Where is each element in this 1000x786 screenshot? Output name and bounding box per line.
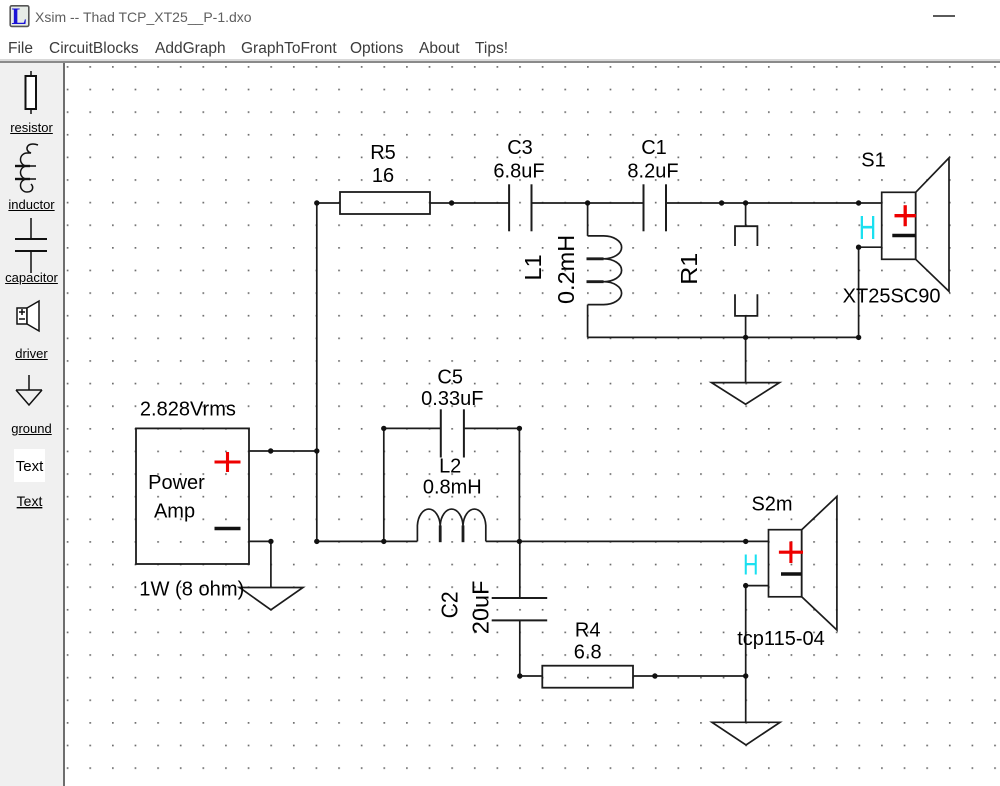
app icon (9, 5, 35, 31)
wire C3 to C1 (532, 202, 644, 204)
junction S1 plus terminal (856, 200, 861, 205)
capacitor C1 plates (644, 184, 667, 231)
wire vertical bus from top net to amp and woofer rail (316, 203, 318, 541)
resistor R1 body (735, 226, 757, 316)
S1 minus polarity mark (892, 234, 915, 237)
toolbar ground icon (16, 375, 42, 405)
wire S2m node to ground (745, 676, 747, 722)
driver S2m symbol (769, 497, 837, 631)
wire woofer rail left (317, 540, 418, 542)
junction C5 right top (517, 426, 522, 431)
S1 plus polarity mark (895, 205, 916, 226)
svg-text:R1: R1 (676, 253, 702, 285)
svg-text:8.2uF: 8.2uF (627, 161, 678, 183)
menu bar (8, 40, 33, 58)
junction amp plus at bus (314, 448, 319, 453)
junction C5 right bottom on rail at C2 (517, 539, 522, 544)
junction R4 right (652, 673, 657, 678)
svg-text:1W (8 ohm): 1W (8 ohm) (139, 579, 244, 601)
junction S2m minus terminal (743, 583, 748, 588)
junction tweeter rail at R1 (743, 335, 748, 340)
junction top net at amp bus (314, 200, 319, 205)
junction amp plus wire (268, 448, 273, 453)
wire R4 to S2m node (633, 675, 746, 677)
junction C2 bottom at R4 left (517, 673, 522, 678)
wire R1 top lead (745, 203, 747, 226)
svg-text:XT25SC90: XT25SC90 (843, 286, 941, 308)
junction tweeter rail at S1 return (856, 335, 861, 340)
wire R1 bottom lead (745, 316, 747, 338)
resistor R4 body (542, 666, 633, 688)
svg-text:6.8uF: 6.8uF (493, 161, 544, 183)
junction amp minus to ground (268, 539, 273, 544)
svg-text:R5: R5 (370, 142, 396, 164)
svg-text:20uF: 20uF (468, 581, 494, 635)
svg-text:H: H (859, 209, 877, 246)
wire L1 top lead (587, 203, 589, 236)
wire L1 bottom lead (587, 305, 589, 338)
wire C5 row right (464, 427, 520, 429)
wire R5 to C3 (430, 202, 509, 204)
S2m minus polarity mark (781, 572, 802, 575)
toolbar capacitor icon (15, 218, 47, 273)
capacitor C2 plates (492, 598, 548, 620)
junction top net at R1 (743, 200, 748, 205)
wire S2m lower terminal (746, 585, 769, 587)
ground below woofer S2m node (712, 722, 780, 745)
wire amp plus terminal (249, 450, 317, 452)
junction top net before R1 (719, 200, 724, 205)
svg-text:L2: L2 (439, 456, 461, 478)
wire C5 branch left vertical (383, 428, 385, 541)
svg-text:H: H (743, 550, 759, 582)
svg-text:R4: R4 (575, 620, 601, 642)
svg-text:0.2mH: 0.2mH (553, 235, 579, 304)
wire C1 to S1 (666, 202, 882, 204)
svg-text:C3: C3 (507, 137, 533, 159)
svg-text:16: 16 (372, 165, 394, 187)
amp minus polarity mark (215, 527, 241, 530)
svg-text:Amp: Amp (154, 501, 195, 523)
junction S2m return at ground (743, 673, 748, 678)
svg-text:Power: Power (148, 472, 205, 494)
ground below tweeter R1 rail (712, 383, 780, 405)
inductor L1 coil (587, 236, 622, 305)
wire tweeter bottom rail (588, 336, 859, 338)
power amp U1 box (136, 428, 249, 564)
svg-text:C1: C1 (641, 137, 667, 159)
junction S2m plus terminal (743, 539, 748, 544)
junction bus at woofer rail (314, 539, 319, 544)
ground below power amp (240, 588, 304, 610)
toolbar icons svg (0, 63, 63, 786)
wire amp minus terminal (249, 540, 271, 542)
svg-text:0.8mH: 0.8mH (423, 477, 482, 499)
junction C5 left bottom on rail (381, 539, 386, 544)
toolbar resistor icon (26, 71, 37, 114)
svg-text:S2m: S2m (751, 494, 792, 516)
wire S1 lower terminal (859, 246, 882, 248)
svg-text:6.8: 6.8 (574, 642, 602, 664)
capacitor C3 plates (509, 184, 531, 231)
junction top net at L1 (585, 200, 590, 205)
svg-text:L1: L1 (520, 254, 546, 280)
toolbar inductor icon (15, 144, 38, 192)
wire amp minus to ground (270, 541, 272, 587)
junction C5 left top (381, 426, 386, 431)
junction S1 minus terminal (856, 245, 861, 250)
wire tweeter rail to ground (745, 337, 747, 382)
wire C2 bottom lead (519, 620, 521, 676)
wire C5 row left (384, 427, 441, 429)
svg-text:C5: C5 (437, 367, 463, 389)
wire C2 top lead (519, 541, 521, 598)
driver S1 symbol (882, 158, 949, 292)
toolbar labels (0, 120, 63, 135)
toolbar driver icon (17, 301, 39, 331)
wire top net: amp bus to R5 (317, 202, 340, 204)
S2m plus polarity mark (779, 542, 803, 564)
wire C2 to R4 (520, 675, 543, 677)
wire S1 minus down to rail (858, 247, 860, 337)
wire woofer rail L2 to S2m (486, 540, 769, 542)
svg-text:S1: S1 (861, 150, 885, 172)
amp plus polarity mark (215, 452, 241, 472)
wire S2m minus down to node (745, 586, 747, 676)
svg-text:2.828Vrms: 2.828Vrms (140, 399, 236, 421)
svg-text:C2: C2 (437, 591, 463, 618)
inductor L2 coil (417, 509, 485, 542)
svg-text:tcp115-04: tcp115-04 (737, 628, 824, 650)
resistor R5 body (340, 192, 430, 214)
junction R5 right (449, 200, 454, 205)
svg-text:0.33uF: 0.33uF (421, 388, 483, 410)
left toolbar background (0, 63, 63, 786)
capacitor C5 plates (441, 409, 464, 457)
toolbar Text button (14, 449, 45, 482)
title bar (0, 0, 1000, 32)
wire C5 branch right vertical (518, 428, 520, 541)
